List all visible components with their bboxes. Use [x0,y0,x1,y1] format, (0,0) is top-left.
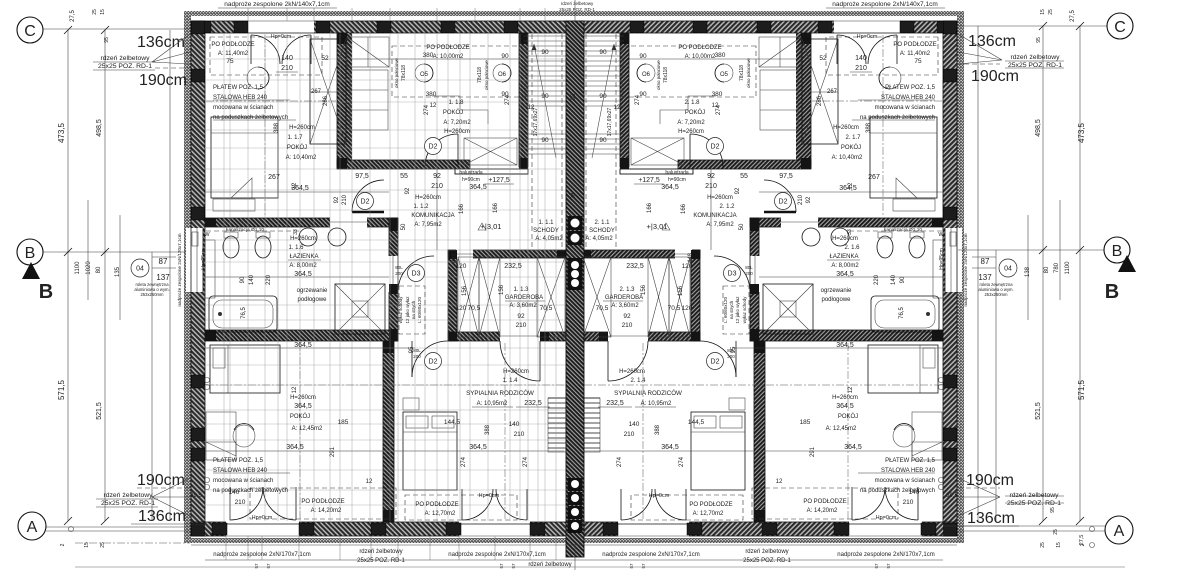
svg-text:A: 12,70m2: A: 12,70m2 [693,511,724,517]
svg-text:GARDEROBA: GARDEROBA [605,295,643,301]
svg-text:2. 1.8: 2. 1.8 [684,100,700,106]
bottom terrace door opening [226,520,299,538]
svg-text:O6: O6 [642,72,651,78]
section dashed line bottom rooms [206,384,564,386]
svg-text:A: A [27,519,38,536]
svg-text:H=260cm: H=260cm [503,369,529,375]
svg-text:A: 8,00m2: A: 8,00m2 [831,263,859,269]
svg-text:380: 380 [426,91,437,98]
svg-text:12: 12 [292,386,298,393]
svg-text:kanalizacja Ø1,10: kanalizacja Ø1,10 [226,227,264,233]
svg-text:okno połaciowe: okno połaciowe [656,60,661,90]
svg-text:473,5: 473,5 [1077,122,1086,143]
bathtub [209,296,277,332]
svg-text:70,5: 70,5 [596,305,609,312]
dimension line room 1.1.7 [205,191,389,193]
svg-text:12: 12 [776,479,783,485]
svg-text:A: 4,05m2: A: 4,05m2 [585,236,613,242]
svg-text:25x25 POZ. RD-1: 25x25 POZ. RD-1 [559,7,595,12]
svg-text:A: 14,20m2: A: 14,20m2 [807,508,838,514]
svg-text:448: 448 [452,252,458,263]
svg-text:95: 95 [1050,507,1056,513]
wardrobe left room 1.1.8 [350,70,388,130]
svg-text:A: 10,95m2: A: 10,95m2 [477,401,508,407]
svg-text:wyłaz schody: wyłaz schody [742,296,747,324]
leader lines top-left [152,34,190,64]
bed room 1.1.7 [211,117,278,198]
svg-text:PO PODŁODZE: PO PODŁODZE [678,45,721,51]
svg-text:380: 380 [423,52,434,59]
door of wardrobe room [500,341,540,381]
insulation strip outer left wall [184,11,191,543]
svg-text:75: 75 [226,58,234,65]
svg-text:mocowana w ścianach: mocowana w ścianach [213,478,273,484]
svg-text:H=260cm: H=260cm [707,195,733,201]
svg-text:rdzeń żelbetowy: rdzeń żelbetowy [561,1,594,6]
svg-text:291: 291 [330,446,336,457]
svg-text:232,5: 232,5 [606,400,624,407]
svg-text:95: 95 [409,346,415,353]
door D2 to master bedroom [412,341,448,377]
svg-text:17x17,69x27: 17x17,69x27 [533,107,539,136]
svg-text:210: 210 [705,183,717,190]
svg-text:Hp=0cm: Hp=0cm [649,493,670,499]
grid line B [43,251,186,253]
svg-text:33: 33 [293,229,299,235]
svg-text:podłogowe: podłogowe [821,297,851,303]
grid bubble B right [1104,237,1130,263]
svg-text:274: 274 [679,456,685,467]
svg-text:50: 50 [739,223,745,230]
svg-text:144,5: 144,5 [688,419,705,426]
svg-text:25: 25 [92,9,98,15]
svg-text:25x25 POZ. RD-1: 25x25 POZ. RD-1 [98,63,152,70]
svg-text:balustrada: balustrada [665,170,689,176]
door symbol D2 bedroom door [425,353,442,370]
wardrobes left pair [458,257,479,337]
svg-text:15: 15 [1040,9,1046,15]
svg-text:388: 388 [485,424,491,435]
svg-text:A: 7,95m2: A: 7,95m2 [706,222,734,228]
wardrobe-room top wall [448,250,566,258]
svg-text:364,5: 364,5 [294,271,312,278]
svg-text:KOMUNIKACJA: KOMUNIKACJA [411,213,454,219]
svg-text:498,5: 498,5 [96,119,103,137]
svg-text:70,5: 70,5 [468,305,481,312]
svg-text:A: 4,05m2: A: 4,05m2 [535,236,563,242]
svg-text:rdzeń żelbetowy: rdzeń żelbetowy [100,55,150,62]
svg-text:15: 15 [1056,542,1062,548]
svg-text:A: 11,40m2: A: 11,40m2 [900,51,931,57]
svg-text:210: 210 [342,194,348,205]
wall outlet symbols [204,377,209,382]
grid bubble C left [17,17,43,43]
terrace double door master bedroom [462,489,493,520]
svg-text:90: 90 [599,137,607,144]
svg-text:2. 1.2: 2. 1.2 [719,204,735,210]
svg-text:364,5: 364,5 [469,444,487,451]
mid wall below bathroom [205,330,398,341]
svg-text:25x25 POZ. RD-1: 25x25 POZ. RD-1 [743,558,791,564]
extra right chain lines [1059,200,1061,300]
svg-text:Hp=0cm: Hp=0cm [271,34,292,40]
dimension line mid [205,347,415,349]
svg-text:90: 90 [240,276,246,283]
stair direction line [534,44,556,158]
attic ladder dashed box [399,286,425,334]
svg-text:364,5: 364,5 [836,342,854,349]
svg-text:D3: D3 [728,271,737,278]
dimension line bedroom [394,450,564,452]
svg-text:PŁATEW POZ. 1,5: PŁATEW POZ. 1,5 [885,458,936,464]
svg-text:97,5: 97,5 [779,173,793,180]
svg-text:200: 200 [413,354,421,359]
svg-text:220: 220 [874,274,880,285]
building geometry, left unit (mirrored for right unit) [184,11,574,543]
door symbol D3 corridor door [408,265,425,282]
svg-text:B: B [1112,243,1123,260]
svg-text:nadproże zespolone 2xN/170x7,1: nadproże zespolone 2xN/170x7,1cm [448,552,545,558]
floor heating dashed area room 1.1.8 [392,46,526,97]
svg-text:38: 38 [571,192,577,199]
shelf room 1.1.8 [347,37,389,67]
svg-text:Hp=0cm: Hp=0cm [857,34,878,40]
svg-text:140: 140 [909,489,920,496]
svg-text:PŁATEW POZ. 1,5: PŁATEW POZ. 1,5 [213,458,264,464]
svg-text:90: 90 [541,93,549,100]
svg-text:92: 92 [806,196,812,203]
svg-text:57: 57 [874,563,879,569]
svg-text:1. 1.4: 1. 1.4 [502,378,518,384]
skylight symbol O5 [415,64,433,82]
svg-text:220: 220 [266,274,272,285]
svg-text:210: 210 [903,499,914,506]
columns, bottom wall [212,523,227,535]
interior wall W1 between room 1.1.7 and stair hall [337,33,347,167]
wardrobe-room left wall [448,250,457,341]
svg-text:12 jako wyłaz: 12 jako wyłaz [405,296,410,324]
dimension line bottom room [205,450,383,452]
svg-text:D2: D2 [361,199,370,206]
svg-text:521,5: 521,5 [96,402,103,420]
svg-text:140: 140 [855,55,867,62]
wardrobes right [537,257,565,337]
svg-text:190cm: 190cm [139,72,187,89]
svg-text:80: 80 [96,266,102,273]
svg-text:A: 10,00m2: A: 10,00m2 [433,54,464,60]
svg-text:D3: D3 [412,271,421,278]
svg-text:17x17,69x27: 17x17,69x27 [607,107,613,136]
svg-text:267: 267 [827,89,838,95]
svg-text:137: 137 [978,273,992,282]
svg-text:POKÓJ: POKÓJ [443,109,463,116]
bottom terrace door opening 2 [459,520,530,538]
svg-text:57: 57 [886,563,891,569]
svg-text:15: 15 [84,542,90,548]
svg-text:52: 52 [321,55,329,62]
left margin dimension chain inner [104,30,106,521]
top entry door opening [248,19,314,35]
nightstand [403,398,419,410]
svg-text:H=260cm: H=260cm [289,125,315,131]
svg-text:210: 210 [855,65,867,72]
svg-text:190cm: 190cm [137,472,185,489]
svg-text:388: 388 [655,424,661,435]
top exterior wall [191,21,574,33]
svg-text:mocowana w ścianach: mocowana w ścianach [213,105,273,111]
right unit: mirrored geometry [574,11,964,543]
svg-text:15: 15 [100,9,106,15]
floor heating dashed area master bedroom [405,495,517,520]
svg-text:PO PODŁODZE: PO PODŁODZE [301,499,344,505]
wall junction blocks [389,218,398,231]
svg-text:90: 90 [599,93,607,100]
svg-text:Hp=95cm: Hp=95cm [939,248,945,270]
svg-text:380: 380 [715,52,726,59]
left margin dimension chain outer [67,30,69,521]
svg-text:166: 166 [681,203,687,214]
leader lines top-right [958,34,1002,64]
svg-text:136cm: 136cm [968,33,1016,50]
svg-text:140: 140 [281,55,293,62]
svg-text:90: 90 [541,137,549,144]
columns, left wall [192,21,205,34]
radiator comb left of chimney [548,398,566,452]
svg-text:140: 140 [509,421,520,428]
svg-text:78x118: 78x118 [477,67,483,83]
svg-text:W: W [938,232,944,238]
svg-text:571,5: 571,5 [1077,379,1086,400]
bathroom kanalizacja dashed line [206,230,300,232]
chimney flue blocks upper [568,216,583,230]
shower [335,284,385,334]
svg-text:210: 210 [624,431,635,438]
door gap corridor wall D3 [388,256,399,292]
svg-text:SCHODY: SCHODY [589,228,615,234]
svg-text:nadproże zespolone 2xN/170x7,1: nadproże zespolone 2xN/170x7,1cm [602,552,699,558]
svg-text:na strych: na strych [729,300,734,319]
svg-text:253x260mm: 253x260mm [984,292,1008,297]
svg-text:O5: O5 [720,72,729,78]
projection lines vertical [224,34,556,521]
room 1.1.8 bottom wall [337,160,470,169]
bottom dashed line left margin [75,542,190,544]
svg-text:1. 1.2: 1. 1.2 [413,204,429,210]
svg-text:200: 200 [395,271,403,276]
svg-text:388: 388 [274,122,280,133]
svg-text:291: 291 [810,446,816,457]
svg-text:140: 140 [229,489,240,496]
svg-text:h=90cm: h=90cm [462,177,480,183]
svg-text:78x118: 78x118 [663,67,669,83]
svg-text:POKÓJ: POKÓJ [838,413,858,420]
svg-text:rdzeń żelbetowy: rdzeń żelbetowy [745,549,788,555]
svg-text:57: 57 [629,563,634,569]
svg-text:286: 286 [817,95,823,106]
svg-text:90: 90 [900,276,906,283]
svg-text:kanalizacja Ø1,10: kanalizacja Ø1,10 [884,227,922,233]
svg-text:1. 1.7: 1. 1.7 [287,135,303,141]
svg-text:364,5: 364,5 [661,184,679,191]
svg-text:Hp=0cm: Hp=0cm [479,493,500,499]
svg-text:+|3,01: +|3,01 [647,222,668,231]
door gap wardrobe room top wall [456,249,473,259]
svg-text:87: 87 [159,257,168,266]
svg-text:210: 210 [281,65,293,72]
chimney flue block group [568,258,583,290]
svg-text:D2: D2 [429,144,438,151]
svg-text:78x118: 78x118 [401,65,407,81]
svg-text:364,5: 364,5 [286,444,304,451]
svg-text:H=260cm: H=260cm [415,195,441,201]
grid bubble B left [17,239,43,265]
door D2 to bathroom corridor [352,180,384,212]
projection lines outside bottom [225,536,227,560]
svg-text:okno połaciowe: okno połaciowe [394,58,399,88]
reinforced concrete columns, top wall [197,22,211,33]
grid bubble A right [1105,516,1133,544]
room 1.1.8 right wall [519,33,528,167]
svg-text:388: 388 [866,122,872,133]
washbasin 2 [328,228,346,246]
svg-text:A: 7,95m2: A: 7,95m2 [414,222,442,228]
svg-text:A: 3,60m2: A: 3,60m2 [509,303,537,309]
svg-text:1100: 1100 [1065,261,1071,275]
svg-text:ogrzewanie: ogrzewanie [297,288,328,294]
svg-text:na strych: na strych [411,300,416,319]
step marks room 1.1.8 [432,96,488,124]
center line above building [574,0,576,21]
bed bottom-left room [210,345,280,393]
svg-text:O5: O5 [420,72,429,78]
svg-text:232,5: 232,5 [504,263,522,270]
svg-text:364,5: 364,5 [661,444,679,451]
svg-text:PO PODŁODZE: PO PODŁODZE [426,45,469,51]
svg-text:2: 2 [60,543,66,546]
svg-text:2. 1.1: 2. 1.1 [594,220,610,226]
svg-text:okno połaciowe: okno połaciowe [746,58,751,88]
svg-text:A: A [1114,523,1125,540]
svg-text:A: 7,20m2: A: 7,20m2 [443,120,471,126]
svg-text:97,5: 97,5 [355,173,369,180]
window ref circle 04 left [131,259,149,277]
door gap wardrobe room bottom wall [500,331,540,342]
svg-text:h=90cm: h=90cm [668,177,686,183]
svg-text:POKÓJ: POKÓJ [287,144,307,151]
extra left chain lines [87,200,89,300]
svg-text:156: 156 [641,284,647,295]
svg-text:okno połaciowe: okno połaciowe [484,60,489,90]
svg-text:balustrada: balustrada [459,170,483,176]
grid line C [43,28,190,30]
svg-text:166: 166 [493,202,499,213]
section dashed line rooms top [206,100,336,102]
svg-text:92: 92 [517,313,525,320]
window ref circle 04 right [999,259,1017,277]
svg-text:ogrzewanie: ogrzewanie [821,288,852,294]
svg-text:137: 137 [156,273,170,282]
leader lines bottom-right [958,478,1000,516]
svg-text:ŁAZIENKA: ŁAZIENKA [829,254,858,260]
svg-text:1. 1.6: 1. 1.6 [288,245,304,251]
svg-text:473,5: 473,5 [57,122,66,143]
svg-text:12: 12 [848,182,854,189]
section marker triangle left B [22,262,40,279]
svg-text:210: 210 [516,322,527,329]
bottom frame line [75,566,1125,568]
svg-text:L: 60/60x120: L: 60/60x120 [723,296,728,323]
svg-text:B: B [25,245,36,262]
svg-text:253x260mm: 253x260mm [140,292,164,297]
svg-text:C: C [24,23,36,40]
wardrobe room 1.1.8 [464,138,517,165]
svg-text:25: 25 [1040,542,1046,548]
svg-text:+|3,01: +|3,01 [481,222,502,231]
svg-text:52: 52 [819,55,827,62]
svg-text:25: 25 [100,542,106,548]
svg-text:78x118: 78x118 [739,65,745,81]
svg-text:H=260cm: H=260cm [832,236,858,242]
svg-text:25x25 POZ. RD-1: 25x25 POZ. RD-1 [1007,500,1061,507]
svg-text:95: 95 [731,346,737,353]
svg-text:A: 3,60m2: A: 3,60m2 [611,303,639,309]
svg-text:ŁAZIENKA: ŁAZIENKA [289,254,318,260]
door D2 of room 1.1.8 [425,134,458,167]
svg-text:12: 12 [614,105,621,111]
toilet 2 [255,236,271,258]
floor heating dashed area room 1.1.7 [210,37,322,75]
floor heating dashed area bottom-left room [250,488,396,519]
svg-text:POKÓJ: POKÓJ [685,109,705,116]
svg-text:39,5: 39,5 [190,493,202,499]
svg-text:274: 274 [617,456,623,467]
svg-text:H=260cm: H=260cm [833,125,859,131]
svg-text:A: 7,20m2: A: 7,20m2 [677,120,705,126]
svg-text:POKÓJ: POKÓJ [841,144,861,151]
svg-text:nadproże zespolone 2xN/140x7,1: nadproże zespolone 2xN/140x7,1cm [832,1,938,8]
vertical dashed line bottom-left room [299,343,301,520]
svg-text:286: 286 [323,95,329,106]
svg-text:70,5: 70,5 [668,305,681,312]
entry double door top [251,35,280,64]
svg-text:39,5: 39,5 [946,493,958,499]
door symbol D2 bathroom corridor door [357,193,374,210]
svg-text:PO PODŁODZE: PO PODŁODZE [803,499,846,505]
svg-text:210: 210 [431,183,443,190]
svg-text:166: 166 [459,203,465,214]
svg-text:57: 57 [511,563,516,569]
svg-text:podłogowe: podłogowe [297,297,327,303]
svg-text:nadproże zespolone 2xN/120x7,1: nadproże zespolone 2xN/120x7,1cm [963,233,968,306]
toilet 1 [223,236,239,258]
svg-text:12: 12 [430,103,437,109]
svg-text:mocowana w ścianach: mocowana w ścianach [875,105,935,111]
svg-text:2. 1.7: 2. 1.7 [845,135,861,141]
svg-text:90: 90 [639,91,647,98]
svg-text:156: 156 [462,285,468,296]
svg-text:A: 10,95m2: A: 10,95m2 [641,401,672,407]
svg-text:rdzeń żelbetowy: rdzeń żelbetowy [528,562,571,568]
svg-text:274: 274 [523,456,529,467]
svg-text:120: 120 [682,263,693,270]
svg-text:25: 25 [1053,529,1059,535]
svg-text:33: 33 [847,229,853,235]
svg-text:76,5: 76,5 [241,307,247,319]
svg-text:POKÓJ: POKÓJ [290,413,310,420]
svg-text:1. 1.8: 1. 1.8 [448,100,464,106]
svg-text:D2: D2 [711,144,720,151]
svg-text:H=260cm: H=260cm [290,236,316,242]
